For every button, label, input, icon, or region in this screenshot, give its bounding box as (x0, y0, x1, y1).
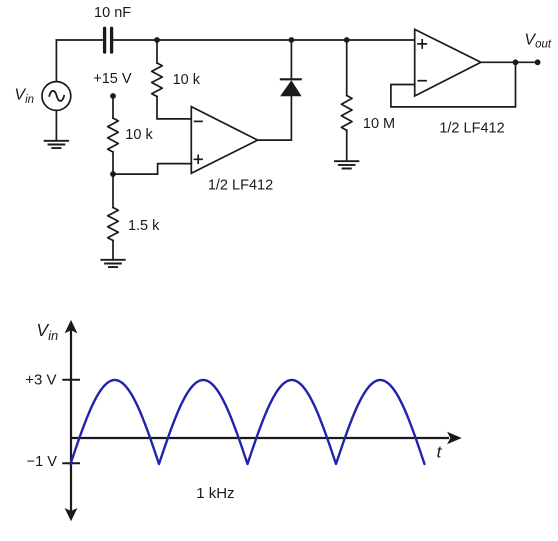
op-amp U1 plus sign (194, 155, 202, 163)
op-amp U1 minus sign (195, 120, 202, 122)
svg-text:Vin: Vin (36, 320, 58, 343)
op-amp U2 triangle (415, 29, 481, 96)
ground under R4 (335, 161, 358, 168)
waveform Vin 1 kHz (71, 380, 425, 464)
diode D1 triangle (280, 80, 302, 96)
wire op-amp U2 output to Vout terminal (481, 61, 538, 63)
wire R4 to ground (346, 130, 348, 161)
wire R3 to ground (112, 241, 114, 260)
svg-text:10 M: 10 M (363, 116, 395, 132)
node dot feedback tap (513, 59, 519, 65)
node dot top rail / R1 (154, 37, 160, 43)
wire top rail right (capacitor to op-amp U2 + input) (113, 39, 414, 41)
node dot 10 M / top rail (344, 37, 350, 43)
ground under R3 (101, 260, 124, 267)
svg-text:1/2 LF412: 1/2 LF412 (439, 121, 504, 137)
wire R2 to divider junction (112, 152, 114, 174)
wire R1 to op-amp U1 inverting input (157, 97, 191, 119)
resistor R1 10 k lead top (156, 40, 158, 63)
resistor R4 10 M lead top (346, 40, 348, 96)
resistor R3 1.5 k zigzag (108, 208, 119, 241)
resistor R2 10 k zigzag (108, 118, 119, 152)
graph vertical axis Vin (70, 327, 72, 513)
graph horizontal axis t (71, 437, 449, 439)
svg-text:Vout: Vout (524, 31, 551, 50)
svg-text:1.5 k: 1.5 k (128, 218, 160, 234)
wire Vin source to top rail (55, 40, 57, 82)
wire feedback loop to op-amp U2 inverting input (391, 62, 516, 107)
diode D1 cathode bar (281, 78, 301, 80)
arrowhead axis right (447, 432, 462, 445)
resistor R3 1.5 k lead top (112, 174, 114, 207)
svg-text:−1 V: −1 V (27, 454, 58, 470)
capacitor C1 10 nF plates (105, 28, 112, 52)
svg-text:+15 V: +15 V (93, 71, 132, 87)
resistor R2 10 k lead top (112, 96, 114, 118)
wire divider junction to op-amp U1 + input (with jog) (113, 164, 191, 175)
svg-text:1 kHz: 1 kHz (196, 485, 234, 502)
op-amp U2 plus sign (418, 40, 426, 48)
resistor R4 10 M zigzag (341, 96, 352, 131)
terminal dot Vout (535, 59, 541, 65)
svg-text:10 nF: 10 nF (94, 5, 131, 21)
wire op-amp U1 output to diode (258, 96, 292, 140)
svg-text:10 k: 10 k (125, 127, 153, 143)
node dot divider junction (110, 171, 116, 177)
wire top rail left (Vin to capacitor) (56, 39, 102, 41)
svg-text:Vin: Vin (14, 87, 34, 106)
svg-text:+3 V: +3 V (25, 371, 56, 388)
svg-text:t: t (437, 442, 443, 461)
node dot diode / top rail (289, 37, 295, 43)
resistor R1 10 k zigzag (152, 63, 163, 97)
arrowhead axis top (65, 320, 78, 333)
wire source bottom to ground (55, 110, 57, 140)
node dot +15 V supply (110, 93, 116, 99)
svg-text:10 k: 10 k (173, 72, 201, 88)
tick -1 V (62, 462, 80, 464)
tick +3 V (62, 379, 80, 381)
op-amp U2 minus sign (418, 80, 426, 82)
ground under Vin source (45, 141, 68, 148)
wire diode to top rail (290, 40, 292, 79)
arrowhead axis bottom (65, 508, 78, 521)
svg-text:1/2 LF412: 1/2 LF412 (208, 177, 273, 193)
op-amp U1 triangle (191, 107, 257, 174)
source Vin (AC) circle (42, 82, 71, 111)
sine symbol inside source (49, 91, 64, 101)
